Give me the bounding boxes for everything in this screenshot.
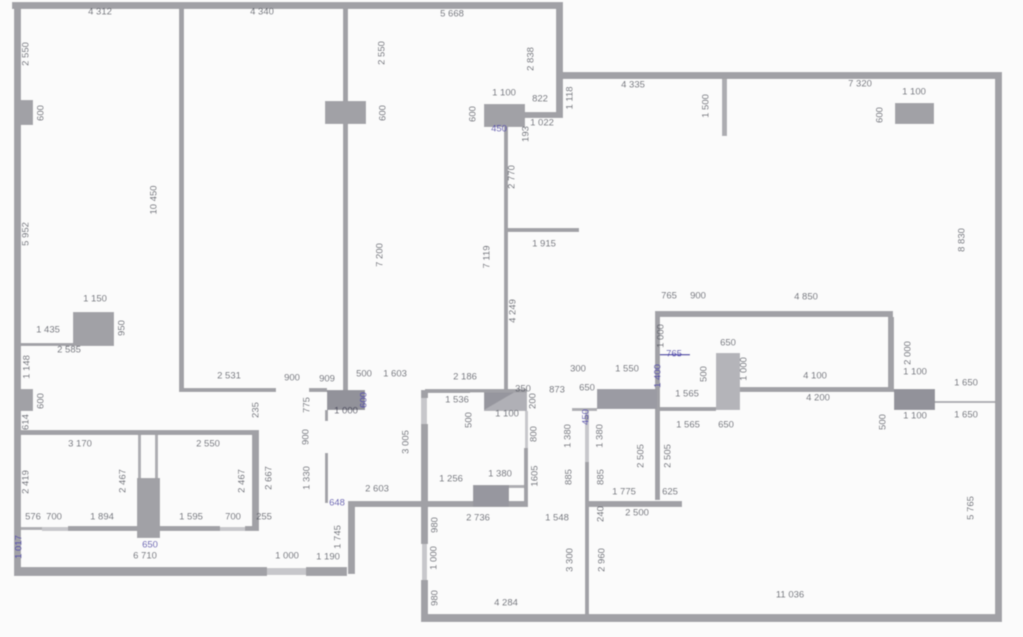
- wall x421 a: [421, 390, 428, 398]
- wall y389 small-room top: [425, 389, 470, 393]
- svg-text:2 667: 2 667: [264, 466, 275, 490]
- svg-text:980: 980: [430, 517, 441, 533]
- svg-text:650: 650: [579, 383, 595, 394]
- wall mid y527 c: [160, 526, 220, 531]
- svg-text:4 284: 4 284: [494, 598, 518, 609]
- line y401 right: [935, 401, 995, 403]
- svg-text:1 150: 1 150: [83, 294, 107, 305]
- window x525: [525, 411, 528, 448]
- column B3: [484, 104, 525, 127]
- svg-text:1 017: 1 017: [14, 535, 25, 559]
- svg-text:1 500: 1 500: [701, 94, 712, 118]
- ledge over notch: [509, 485, 524, 488]
- svg-text:950: 950: [117, 320, 128, 336]
- wall mid y527 e: [245, 526, 259, 531]
- svg-text:1 190: 1 190: [316, 552, 340, 563]
- svg-text:600: 600: [36, 105, 47, 121]
- svg-text:2 419: 2 419: [21, 470, 32, 494]
- svg-text:300: 300: [570, 364, 586, 375]
- svg-text:650: 650: [718, 420, 734, 431]
- svg-text:1 000: 1 000: [275, 551, 299, 562]
- dimension strike line for 765: [660, 354, 690, 356]
- svg-text:350: 350: [515, 384, 531, 395]
- wall outer left: [14, 2, 21, 576]
- svg-text:873: 873: [549, 385, 565, 396]
- svg-text:600: 600: [378, 105, 389, 121]
- svg-text:1 330: 1 330: [302, 466, 313, 490]
- svg-text:1 536: 1 536: [445, 395, 469, 406]
- svg-text:700: 700: [225, 512, 241, 523]
- wall x524: [524, 448, 528, 507]
- svg-text:822: 822: [532, 94, 548, 105]
- svg-text:5 765: 5 765: [966, 496, 977, 520]
- wall y387 right: [740, 387, 888, 392]
- wall stub y228: [508, 228, 579, 232]
- svg-text:1 435: 1 435: [36, 325, 60, 336]
- wall center-left x325 b: [325, 453, 328, 503]
- wall y388 b: [309, 388, 327, 392]
- svg-text:1 775: 1 775: [612, 487, 636, 498]
- svg-text:450: 450: [581, 409, 592, 425]
- svg-text:7 200: 7 200: [375, 243, 386, 267]
- svg-text:1 603: 1 603: [383, 369, 407, 380]
- svg-text:2 585: 2 585: [57, 345, 81, 356]
- svg-text:2 505: 2 505: [636, 444, 647, 468]
- wall x421 b: [421, 424, 428, 544]
- svg-text:1 000: 1 000: [656, 324, 667, 348]
- svg-text:1 000: 1 000: [739, 357, 750, 381]
- svg-text:2 467: 2 467: [118, 469, 129, 493]
- svg-text:2 500: 2 500: [625, 508, 649, 519]
- svg-text:1 100: 1 100: [495, 409, 519, 420]
- svg-text:600: 600: [468, 106, 479, 122]
- svg-text:4 249: 4 249: [508, 299, 519, 323]
- block B12: [473, 485, 509, 507]
- svg-text:700: 700: [46, 512, 62, 523]
- svg-text:11 036: 11 036: [776, 590, 804, 601]
- svg-text:193: 193: [521, 126, 532, 142]
- wall bottom-left a: [14, 567, 267, 576]
- svg-text:885: 885: [596, 469, 607, 485]
- svg-text:1 100: 1 100: [903, 367, 927, 378]
- svg-text:1 256: 1 256: [439, 474, 463, 485]
- svg-text:2 838: 2 838: [526, 47, 537, 71]
- svg-text:1 565: 1 565: [676, 420, 700, 431]
- svg-text:10 450: 10 450: [149, 185, 160, 214]
- wall vertical x343: [343, 9, 348, 390]
- wall vertical x655: [655, 317, 660, 500]
- svg-text:1 380: 1 380: [595, 424, 606, 448]
- column left wall top: [14, 100, 33, 125]
- wall bottom main: [421, 614, 1002, 622]
- wall mid y527 b: [68, 526, 137, 531]
- svg-text:1 100: 1 100: [492, 88, 516, 99]
- svg-text:614: 614: [21, 414, 32, 430]
- svg-text:765: 765: [661, 291, 677, 302]
- wall vertical x348 jog: [348, 503, 355, 574]
- wall center-left x325 a: [325, 410, 328, 421]
- shaft wall left: [138, 435, 141, 478]
- svg-text:2 531: 2 531: [217, 371, 241, 382]
- svg-text:1 548: 1 548: [545, 513, 569, 524]
- svg-text:2 736: 2 736: [466, 513, 490, 524]
- wall step y112: [522, 112, 563, 118]
- svg-text:1 650: 1 650: [954, 410, 978, 421]
- svg-text:2 550: 2 550: [377, 41, 388, 65]
- svg-text:1 380: 1 380: [488, 469, 512, 480]
- svg-text:3 300: 3 300: [565, 548, 576, 572]
- svg-text:650: 650: [142, 540, 158, 551]
- wall thin vertical x504: [504, 127, 508, 390]
- svg-text:1 022: 1 022: [530, 118, 554, 129]
- svg-text:5 668: 5 668: [440, 9, 464, 20]
- svg-text:6 710: 6 710: [133, 551, 157, 562]
- svg-text:3 170: 3 170: [68, 439, 92, 450]
- svg-text:600: 600: [36, 393, 47, 409]
- svg-text:4 335: 4 335: [621, 80, 645, 91]
- svg-text:8 830: 8 830: [957, 228, 968, 252]
- svg-text:500: 500: [356, 369, 372, 380]
- wall x585: [585, 462, 589, 614]
- column B2: [325, 101, 366, 124]
- svg-text:2 603: 2 603: [365, 484, 389, 495]
- svg-text:500: 500: [699, 366, 710, 382]
- wall bottom-left b: [306, 567, 347, 576]
- svg-text:775: 775: [302, 397, 313, 413]
- wall thin y343 left: [21, 343, 73, 346]
- svg-text:1 000: 1 000: [334, 406, 358, 417]
- window x585: [585, 411, 589, 462]
- svg-text:1 595: 1 595: [179, 512, 203, 523]
- shaft wall right: [155, 435, 158, 478]
- svg-text:648: 648: [329, 498, 345, 509]
- wall lower-left top y430: [14, 430, 259, 435]
- column B5 big: [73, 312, 114, 346]
- svg-text:2 505: 2 505: [663, 444, 674, 468]
- svg-text:1 148: 1 148: [22, 355, 33, 379]
- svg-text:2 770: 2 770: [507, 165, 518, 189]
- svg-text:200: 200: [528, 393, 539, 409]
- svg-text:1605: 1605: [530, 465, 541, 486]
- wall center y501: [348, 501, 528, 507]
- svg-text:900: 900: [301, 429, 312, 445]
- svg-text:1 894: 1 894: [90, 512, 114, 523]
- wall y388 a: [181, 388, 276, 392]
- wall vertical x556 top: [556, 2, 563, 118]
- svg-text:4 200: 4 200: [806, 393, 830, 404]
- svg-text:1 550: 1 550: [615, 364, 639, 375]
- svg-text:235: 235: [251, 402, 262, 418]
- window mid y527: [42, 527, 68, 531]
- svg-text:1 745: 1 745: [333, 525, 344, 549]
- svg-text:7 119: 7 119: [482, 245, 493, 268]
- pilaster B6: [14, 389, 33, 411]
- svg-text:980: 980: [430, 590, 441, 606]
- nub x585 top: [585, 415, 589, 420]
- block B11 bar: [597, 389, 657, 409]
- svg-text:909: 909: [319, 374, 335, 385]
- svg-text:625: 625: [662, 487, 678, 498]
- svg-text:4 100: 4 100: [803, 371, 827, 382]
- wall vertical x179: [179, 9, 184, 392]
- wall vertical x252: [252, 430, 259, 531]
- wall stub x722: [722, 79, 727, 136]
- svg-text:900: 900: [690, 291, 706, 302]
- svg-text:4 340: 4 340: [250, 7, 274, 18]
- wall y501 right: [589, 501, 682, 507]
- svg-text:4 312: 4 312: [88, 7, 112, 18]
- svg-text:2 467: 2 467: [237, 469, 248, 493]
- column B4: [895, 103, 934, 124]
- wall mid y527 a: [21, 527, 42, 530]
- column B7 center: [327, 390, 365, 410]
- svg-text:765: 765: [666, 349, 682, 360]
- svg-text:600: 600: [359, 392, 370, 408]
- svg-text:1 100: 1 100: [902, 87, 926, 98]
- wall outer right: [995, 72, 1002, 621]
- svg-text:1 118: 1 118: [565, 86, 576, 109]
- svg-text:800: 800: [529, 426, 540, 442]
- column B9 right: [894, 389, 935, 410]
- svg-text:4 850: 4 850: [794, 292, 818, 303]
- svg-text:1 100: 1 100: [903, 411, 927, 422]
- svg-text:500: 500: [878, 414, 889, 430]
- shaft block B13: [137, 478, 160, 538]
- svg-text:2 000: 2 000: [903, 341, 914, 365]
- wall x421 c: [421, 580, 428, 622]
- svg-text:885: 885: [564, 469, 575, 485]
- block B10 wide: [716, 353, 740, 410]
- svg-text:240: 240: [596, 506, 607, 522]
- svg-text:2 550: 2 550: [21, 42, 32, 66]
- column B8 with diagonal (stair block): [470, 389, 527, 411]
- wall y407 right: [660, 407, 716, 411]
- svg-text:2 186: 2 186: [453, 372, 477, 383]
- wall vertical x888: [888, 317, 894, 392]
- svg-text:500: 500: [464, 412, 475, 428]
- svg-text:2 960: 2 960: [597, 548, 608, 572]
- svg-text:1 000: 1 000: [429, 546, 440, 570]
- window x421 lower: [422, 544, 427, 580]
- wall top-right horizontal: [563, 72, 1002, 79]
- wall outer top: [12, 2, 563, 9]
- wall thin y408: [572, 408, 597, 411]
- svg-text:7 320: 7 320: [848, 79, 872, 90]
- svg-text:900: 900: [284, 373, 300, 384]
- svg-text:1 915: 1 915: [532, 239, 556, 250]
- window mid y527 d: [220, 527, 245, 531]
- svg-text:650: 650: [720, 338, 736, 349]
- svg-text:576: 576: [25, 512, 41, 523]
- svg-text:450: 450: [491, 124, 507, 135]
- svg-text:1 565: 1 565: [675, 389, 699, 400]
- svg-text:255: 255: [256, 512, 272, 523]
- svg-text:1 650: 1 650: [954, 378, 978, 389]
- svg-text:2 550: 2 550: [196, 439, 220, 450]
- window bottom-left: [267, 568, 306, 575]
- svg-text:1 400: 1 400: [653, 364, 664, 388]
- wall room top y311: [655, 311, 893, 317]
- window x421 upper: [421, 398, 427, 424]
- svg-text:3 005: 3 005: [401, 430, 412, 454]
- svg-text:5 952: 5 952: [21, 222, 32, 246]
- svg-text:600: 600: [875, 107, 886, 123]
- svg-text:1 380: 1 380: [563, 424, 574, 448]
